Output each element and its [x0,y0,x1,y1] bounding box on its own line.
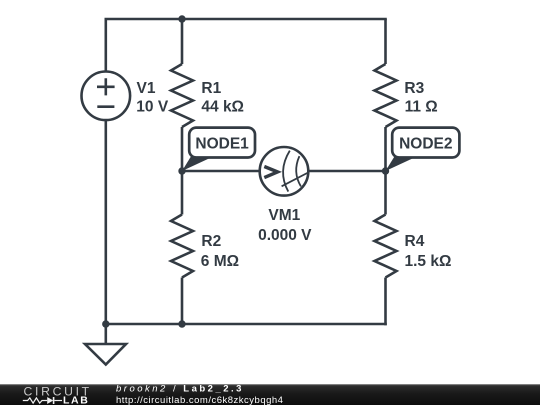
svg-text:NODE2: NODE2 [399,136,452,153]
svg-text:http://circuitlab.com/c6k8zkcy: http://circuitlab.com/c6k8zkcybqgh4 [116,395,283,405]
label R2 value 6 MΩ [201,233,239,270]
svg-text:R3: R3 [404,80,424,97]
svg-text:LAB: LAB [63,395,89,405]
resistor R3 [375,64,397,127]
svg-text:VM1: VM1 [268,207,300,224]
junction top of R1 [178,15,185,22]
label R3 value 11 Ω [404,80,437,116]
label V1 value 10 V [136,80,169,116]
svg-text:R1: R1 [201,80,221,97]
wire top to R3 [384,19,387,64]
footer bar [0,384,540,405]
wire VM1 to NODE2 [309,170,386,173]
wire NODE1 to R2 [181,171,184,215]
node NODE1 callout [182,128,255,171]
junction NODE2 [382,167,389,174]
wire R4 to bottom [384,278,387,326]
resistor R1 [171,64,193,127]
svg-text:6 MΩ: 6 MΩ [201,253,239,270]
junction NODE1 [178,167,185,174]
ground [85,344,126,365]
wire V1 top lead [105,19,108,72]
wire bottom horizontal [106,323,387,326]
svg-text:0.000 V: 0.000 V [258,227,312,244]
wire NODE2 to R4 [384,171,387,215]
svg-text:1.5 kΩ: 1.5 kΩ [405,253,452,270]
label R1 value 44 kΩ [201,80,244,116]
wire V1 bottom lead [105,120,108,324]
label R4 value 1.5 kΩ [405,233,452,270]
wire R1 to NODE1 [181,127,184,171]
resistor R2 [171,215,193,278]
svg-text:R4: R4 [405,233,425,250]
label VM1 value 0.000 V [258,207,312,244]
voltmeter VM1 [260,147,309,196]
junction ground [102,320,109,327]
svg-text:R2: R2 [201,233,221,250]
wire top horizontal [105,18,387,21]
wire ground stub [105,324,108,344]
svg-text:11 Ω: 11 Ω [405,99,438,116]
resistor R4 [375,215,397,278]
footer title text [116,384,283,406]
CircuitLab logo [23,384,92,406]
wire R3 to NODE2 [384,127,387,171]
node NODE2 callout [386,128,460,171]
svg-text:V1: V1 [137,80,156,97]
wire NODE1 to VM1 [182,170,259,173]
wire top to R1 [181,19,184,64]
voltage source V1 [82,72,131,121]
svg-text:44 kΩ: 44 kΩ [201,99,244,116]
svg-text:10 V: 10 V [136,99,169,116]
svg-text:brookn2 / Lab2_2.3: brookn2 / Lab2_2.3 [116,384,244,395]
junction bottom of R2 [178,320,185,327]
wire R2 to bottom [181,278,184,325]
svg-text:NODE1: NODE1 [195,136,249,153]
